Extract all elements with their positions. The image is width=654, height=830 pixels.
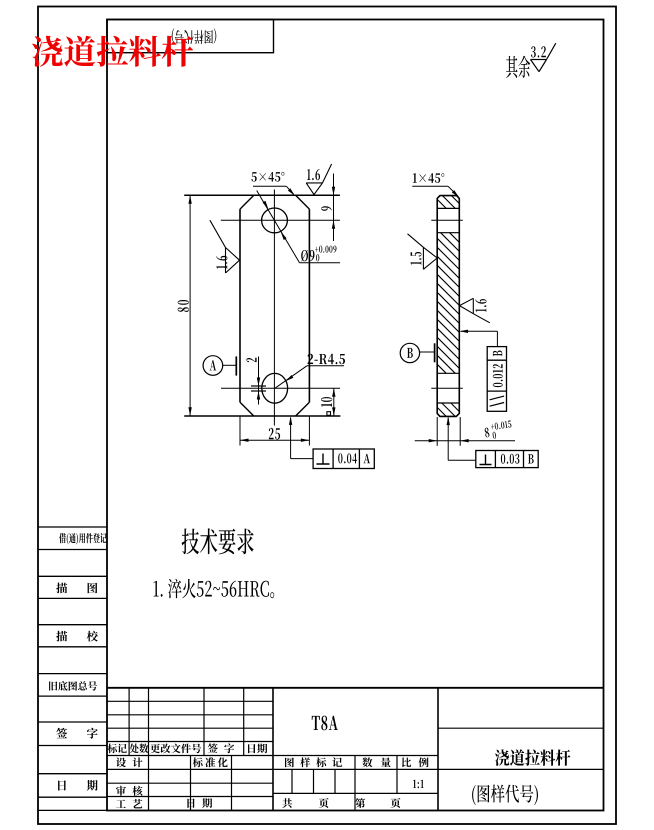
leader to frame A — [290, 418, 292, 459]
roughness symbol 3.2 — [531, 59, 547, 61]
datum A letter — [210, 360, 217, 370]
feature control frame perp 0.03 B — [476, 451, 538, 468]
roughness 1.6 right of side view — [460, 298, 474, 305]
dim 25 arrows — [240, 439, 249, 442]
top hole circle — [262, 208, 288, 233]
title block outer top — [107, 687, 604, 689]
small square mark — [327, 412, 331, 416]
inner drawing frame — [107, 20, 604, 811]
material T8A — [312, 716, 338, 731]
label shenhe — [116, 786, 142, 796]
text 3.2 — [531, 46, 546, 57]
feature control frame // 0.012 B (rotated) — [487, 347, 506, 412]
tol value 0.04 — [338, 453, 357, 463]
dim 8 sub — [492, 432, 496, 440]
dim 8 tolerance text — [484, 420, 513, 440]
label genggai wenjianhao — [150, 744, 201, 754]
red title jiaodao laliaogan — [32, 36, 193, 67]
left register column box lines — [38, 526, 107, 528]
dim 8 value — [484, 427, 490, 437]
label ye — [319, 798, 329, 808]
dim 80 arrows — [188, 195, 191, 204]
dia 9 text underline — [300, 262, 341, 264]
text 1.6 left — [216, 256, 227, 269]
front view part outline: left edge — [239, 209, 241, 402]
text 1.5 — [410, 252, 421, 265]
dim 8 ext left — [436, 417, 438, 446]
note 5x45 — [251, 172, 284, 182]
label ye 2 — [391, 798, 401, 808]
tol value 0.012 — [493, 364, 503, 387]
dia symbol and 9 — [301, 250, 314, 262]
5x45 underline — [253, 185, 286, 187]
label qian zi — [56, 728, 97, 739]
dim text 2 — [246, 358, 256, 362]
label bili — [402, 757, 429, 767]
label gong — [282, 798, 292, 808]
1x45 leader arrow — [452, 190, 459, 197]
label sheji — [116, 757, 142, 767]
side hole top line 2 — [437, 232, 459, 234]
dia 9 arrows — [263, 201, 269, 209]
leader to parallelism frame — [461, 330, 498, 332]
section hatching — [437, 196, 459, 417]
dim 8 sup — [490, 420, 511, 430]
dim text 10 — [321, 397, 332, 407]
parallel symbol — [490, 396, 505, 400]
label di — [355, 798, 365, 808]
bottom hole circle — [262, 373, 288, 403]
dim 2 arrows — [257, 378, 260, 387]
dim text 80 — [178, 300, 189, 312]
scale 1:1 — [413, 780, 424, 789]
roughness 1.6 on left edge — [226, 248, 240, 261]
rotated text (tuyang daihao) 180deg — [172, 28, 217, 44]
dia 9 dimension line — [257, 191, 300, 263]
dim 9 arrows — [332, 187, 335, 196]
dimension 10 line — [333, 388, 335, 416]
dim text 9 — [321, 206, 332, 211]
tol datum B2 — [528, 454, 534, 463]
label tuyang biaoji — [285, 757, 342, 767]
dim 25 ext right — [308, 416, 310, 446]
side hole bottom line 1 — [437, 372, 459, 374]
feature control frame perp 0.04 A — [313, 449, 374, 469]
2-R4.5 underline — [307, 365, 344, 367]
front view part outline: top edge — [184, 194, 340, 196]
tol value 0.03 — [501, 454, 520, 464]
title block verticals — [128, 688, 130, 756]
tol datum B rot — [493, 351, 502, 357]
label gongyi — [116, 799, 142, 809]
5x45 leader arrow — [288, 188, 295, 195]
side bottom hole center line — [431, 387, 463, 389]
heading jishu yaoqiu — [182, 528, 254, 554]
title block revision row lines — [107, 700, 273, 702]
dim 8 arrows — [429, 439, 438, 442]
perpendicular symbol — [317, 454, 330, 465]
label jie(tong)yongjian dengji — [59, 533, 107, 545]
front view part outline: right edge — [308, 209, 310, 402]
1x45 leader — [448, 186, 458, 196]
label qianzi 2 — [208, 743, 234, 753]
label riqi 3 — [187, 798, 212, 808]
1x45 underline — [412, 185, 448, 187]
dimension 80 line — [189, 195, 191, 415]
datum A symbol — [203, 356, 223, 376]
2-R4.5 leader arrow — [286, 375, 294, 381]
label chushu — [130, 744, 149, 754]
label riqi 2 — [248, 744, 267, 754]
title code box top-left — [107, 20, 274, 53]
side hole top line 1 — [437, 207, 459, 209]
label miao jiao — [56, 631, 98, 642]
text qiyu (others) — [506, 56, 530, 78]
note 1x45 — [413, 173, 444, 183]
label jiuditu zonghao — [49, 681, 97, 691]
dia 9 sub — [316, 254, 319, 261]
label miao tu — [56, 583, 97, 594]
dia 9 sup — [315, 246, 337, 253]
vertical center line — [273, 190, 275, 426]
dim 10 arrows — [332, 388, 335, 397]
label biaozhunhua — [193, 757, 228, 767]
roughness 1.6 on top edge — [306, 182, 322, 184]
side hole bottom line 2 — [437, 402, 459, 404]
datum B symbol — [400, 343, 419, 362]
5x45 leader — [286, 186, 293, 194]
roughness 1.5 left of side view — [423, 247, 437, 258]
note 2-R4.5 — [308, 354, 345, 364]
text 1.6 side — [475, 299, 486, 312]
tech req line 1 — [154, 579, 275, 599]
label ri qi — [58, 780, 98, 791]
label biaoji — [108, 744, 127, 754]
dim 8 ext right — [459, 417, 461, 446]
dimension 9 line — [333, 174, 335, 242]
leader to frame B — [447, 418, 449, 461]
front view part outline: bottom edge — [184, 415, 340, 417]
2-R4.5 leader — [275, 366, 307, 389]
dim 25 ext left — [239, 416, 241, 446]
side view outline — [437, 196, 459, 417]
dim text 25 — [269, 428, 280, 440]
bottom hole center line — [221, 387, 340, 389]
dimension 8 line — [415, 440, 515, 442]
part name jiaodao laliaogan — [495, 749, 571, 766]
dimension 25 line — [240, 439, 309, 441]
label shuliang — [362, 757, 390, 767]
chamfer corners — [240, 195, 309, 416]
tol datum A — [364, 454, 371, 463]
side top hole center line — [431, 219, 463, 221]
dimension 2 line — [258, 357, 260, 405]
drawing code (tuyang daihao) — [472, 785, 538, 806]
datum B letter — [407, 348, 413, 358]
dim 2 ticks — [251, 385, 266, 387]
perpendicular symbol 2 — [480, 455, 492, 465]
top hole center line — [221, 219, 340, 221]
title block full row lines — [107, 727, 273, 729]
text 1.6 top — [307, 169, 320, 180]
